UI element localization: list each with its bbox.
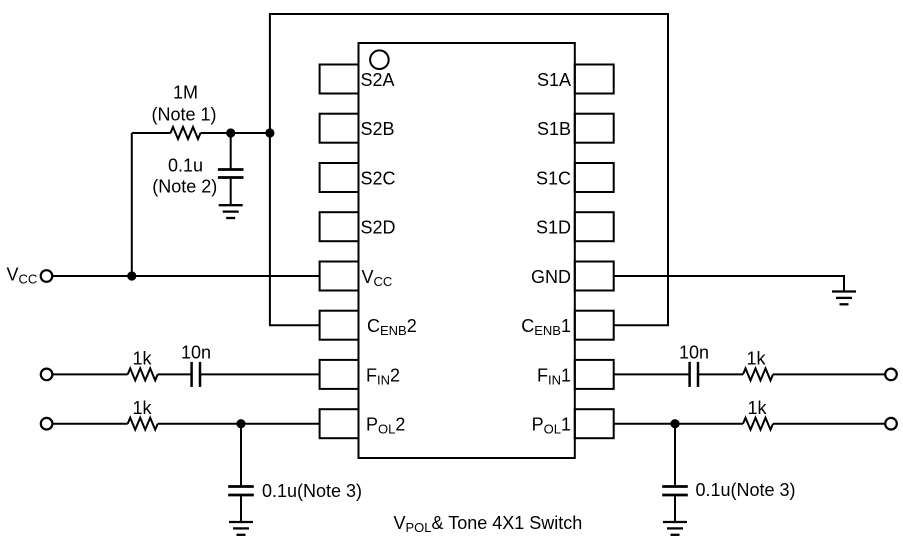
- wire POL1 pin to 1k: [614, 423, 743, 425]
- resistor 1k (FIN2): [128, 368, 158, 380]
- op-amp U1: [359, 43, 575, 458]
- wire cap 0.1u bottom lead: [230, 178, 232, 206]
- resistor 1k (POL2): [128, 418, 158, 430]
- svg-text:GND: GND: [531, 267, 571, 287]
- pin box FIN2: [320, 360, 359, 389]
- svg-text:S1D: S1D: [536, 218, 571, 238]
- svg-text:(Note 2): (Note 2): [152, 177, 217, 197]
- ground below 0.1u (Note 3) left: [229, 522, 253, 535]
- pin box GND: [575, 262, 614, 291]
- junction 1M / 0.1u cap node: [226, 128, 235, 137]
- pin box POL1: [575, 409, 614, 438]
- wire 10n to 1k (FIN1): [698, 373, 743, 375]
- wire cap 0.1u top lead: [230, 133, 232, 170]
- pin box CENB2: [320, 311, 359, 340]
- pin box FIN1: [575, 360, 614, 389]
- wire 1k to POL2 pin: [158, 423, 320, 425]
- wire VCC node up to 1M row: [131, 133, 133, 276]
- wire 1M right lead to CENB2 rail: [201, 132, 270, 134]
- terminal VCC input: [41, 270, 53, 282]
- wire 10n to FIN2 pin: [200, 373, 320, 375]
- resistor 1k (POL1): [743, 418, 773, 430]
- svg-text:S2B: S2B: [361, 119, 395, 139]
- svg-text:10n: 10n: [679, 343, 709, 363]
- pin-1 indicator circle: [370, 50, 389, 69]
- wire VCC terminal to VCC pin: [52, 275, 319, 277]
- svg-text:S1B: S1B: [537, 119, 571, 139]
- svg-text:0.1u(Note 3): 0.1u(Note 3): [696, 480, 796, 500]
- svg-text:1M: 1M: [173, 83, 198, 103]
- wire 0.1u bottom lead right: [674, 495, 676, 522]
- wire 0.1u bottom lead left: [240, 495, 242, 522]
- terminal FIN2 input: [41, 369, 53, 381]
- resistor 1M: [171, 127, 201, 139]
- wire POL1 node down to 0.1u: [674, 424, 676, 487]
- svg-text:1k: 1k: [747, 398, 767, 418]
- svg-text:VPOL& Tone 4X1 Switch: VPOL& Tone 4X1 Switch: [394, 513, 583, 535]
- capacitor 0.1u (Note 2): [218, 170, 244, 178]
- svg-text:S1A: S1A: [537, 70, 571, 90]
- svg-text:S2D: S2D: [361, 218, 396, 238]
- ground at GND pin: [832, 292, 856, 305]
- pin box S2B: [320, 114, 359, 143]
- capacitor 10n (FIN1): [690, 362, 698, 387]
- capacitor 0.1u (Note 3) left: [228, 487, 254, 496]
- wire CENB2 rail around top to CENB1: [270, 14, 668, 325]
- svg-text:S2C: S2C: [361, 169, 396, 189]
- pin box S1B: [575, 114, 614, 143]
- svg-text:S2A: S2A: [361, 70, 395, 90]
- svg-text:1k: 1k: [132, 398, 152, 418]
- wire POL2 terminal to 1k: [52, 423, 127, 425]
- junction VCC node: [127, 271, 136, 280]
- svg-text:(Note 1): (Note 1): [151, 105, 216, 125]
- pin box S2D: [320, 212, 359, 241]
- wire GND pin to ground: [614, 276, 844, 292]
- resistor 1k (FIN1): [743, 368, 773, 380]
- svg-text:0.1u(Note 3): 0.1u(Note 3): [262, 481, 362, 501]
- pin box S1A: [575, 65, 614, 94]
- junction on CENB2 rail: [265, 128, 274, 137]
- svg-text:VCC: VCC: [7, 265, 38, 287]
- pin box S1D: [575, 212, 614, 241]
- wire 1k to POL1 terminal: [773, 423, 885, 425]
- ground below 0.1u (Note 2): [219, 205, 243, 218]
- wire 1k to FIN1 terminal: [773, 373, 885, 375]
- svg-text:1k: 1k: [746, 349, 766, 369]
- pin box POL2: [320, 409, 359, 438]
- wire FIN1 pin to 10n: [614, 373, 690, 375]
- wire FIN2 terminal to 1k: [52, 373, 127, 375]
- svg-text:S1C: S1C: [536, 169, 571, 189]
- terminal POL2 input: [41, 418, 53, 430]
- svg-text:1k: 1k: [132, 349, 152, 369]
- pin box S1C: [575, 163, 614, 192]
- capacitor 10n (FIN2): [192, 362, 200, 387]
- pin box VCC: [320, 262, 359, 291]
- wire 1M left lead: [132, 132, 171, 134]
- terminal POL1 output: [885, 418, 897, 430]
- svg-text:10n: 10n: [181, 343, 211, 363]
- pin box CENB1: [575, 311, 614, 340]
- terminal FIN1 output: [885, 369, 897, 381]
- capacitor 0.1u (Note 3) right: [662, 487, 688, 496]
- junction POL2 cap node: [236, 419, 245, 428]
- ground below 0.1u (Note 3) right: [663, 522, 687, 535]
- svg-text:0.1u: 0.1u: [168, 156, 203, 176]
- junction POL1 cap node: [670, 419, 679, 428]
- wire 1k to 10n (FIN2): [158, 373, 192, 375]
- wire POL2 node down to 0.1u: [240, 424, 242, 487]
- pin box S2C: [320, 163, 359, 192]
- pin box S2A: [320, 65, 359, 94]
